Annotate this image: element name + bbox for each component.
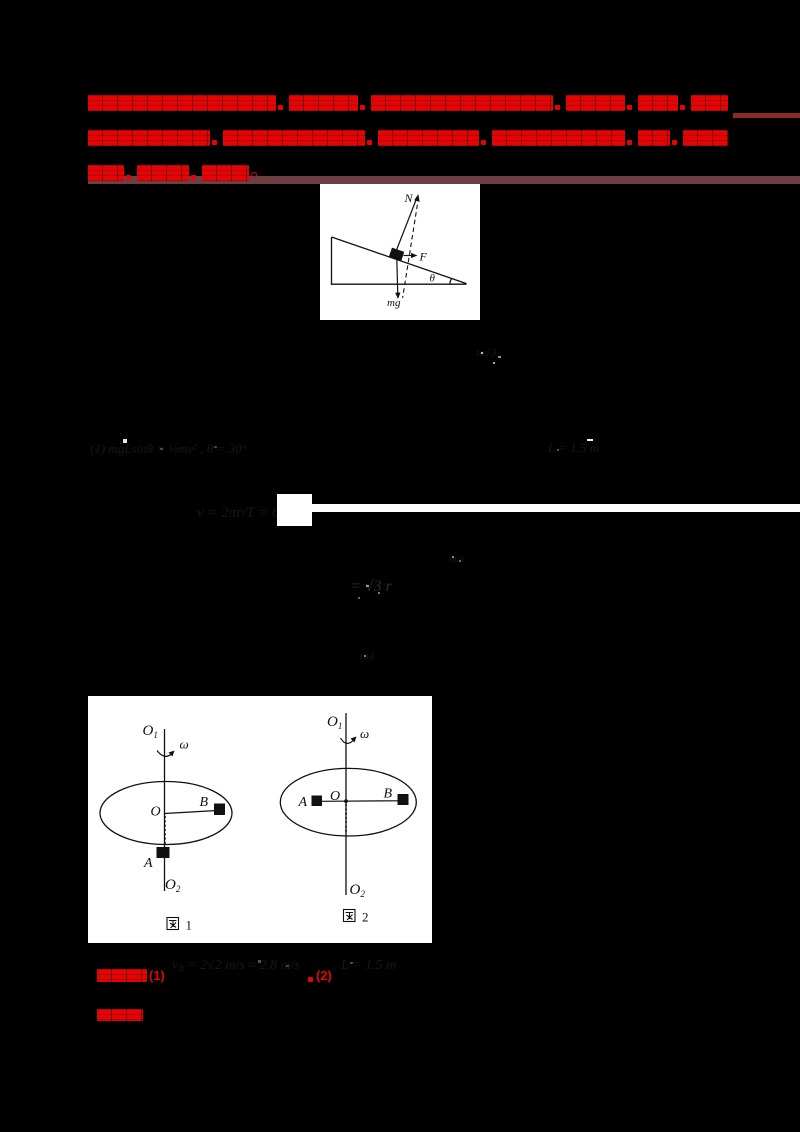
svg-text:B: B [384,787,393,802]
svg-text:A: A [143,856,153,871]
svg-text:F: F [419,250,428,264]
svg-text:mg: mg [387,297,401,309]
svg-text:O: O [151,805,161,820]
svg-text:ω: ω [360,726,369,741]
svg-text:1: 1 [186,918,193,933]
svg-text:B: B [200,795,209,810]
svg-text:N: N [404,191,414,205]
svg-text:O: O [330,789,340,804]
svg-text:2: 2 [362,910,369,925]
svg-text:A: A [298,795,308,810]
svg-text:ω: ω [180,737,189,752]
svg-text:θ: θ [430,273,436,285]
